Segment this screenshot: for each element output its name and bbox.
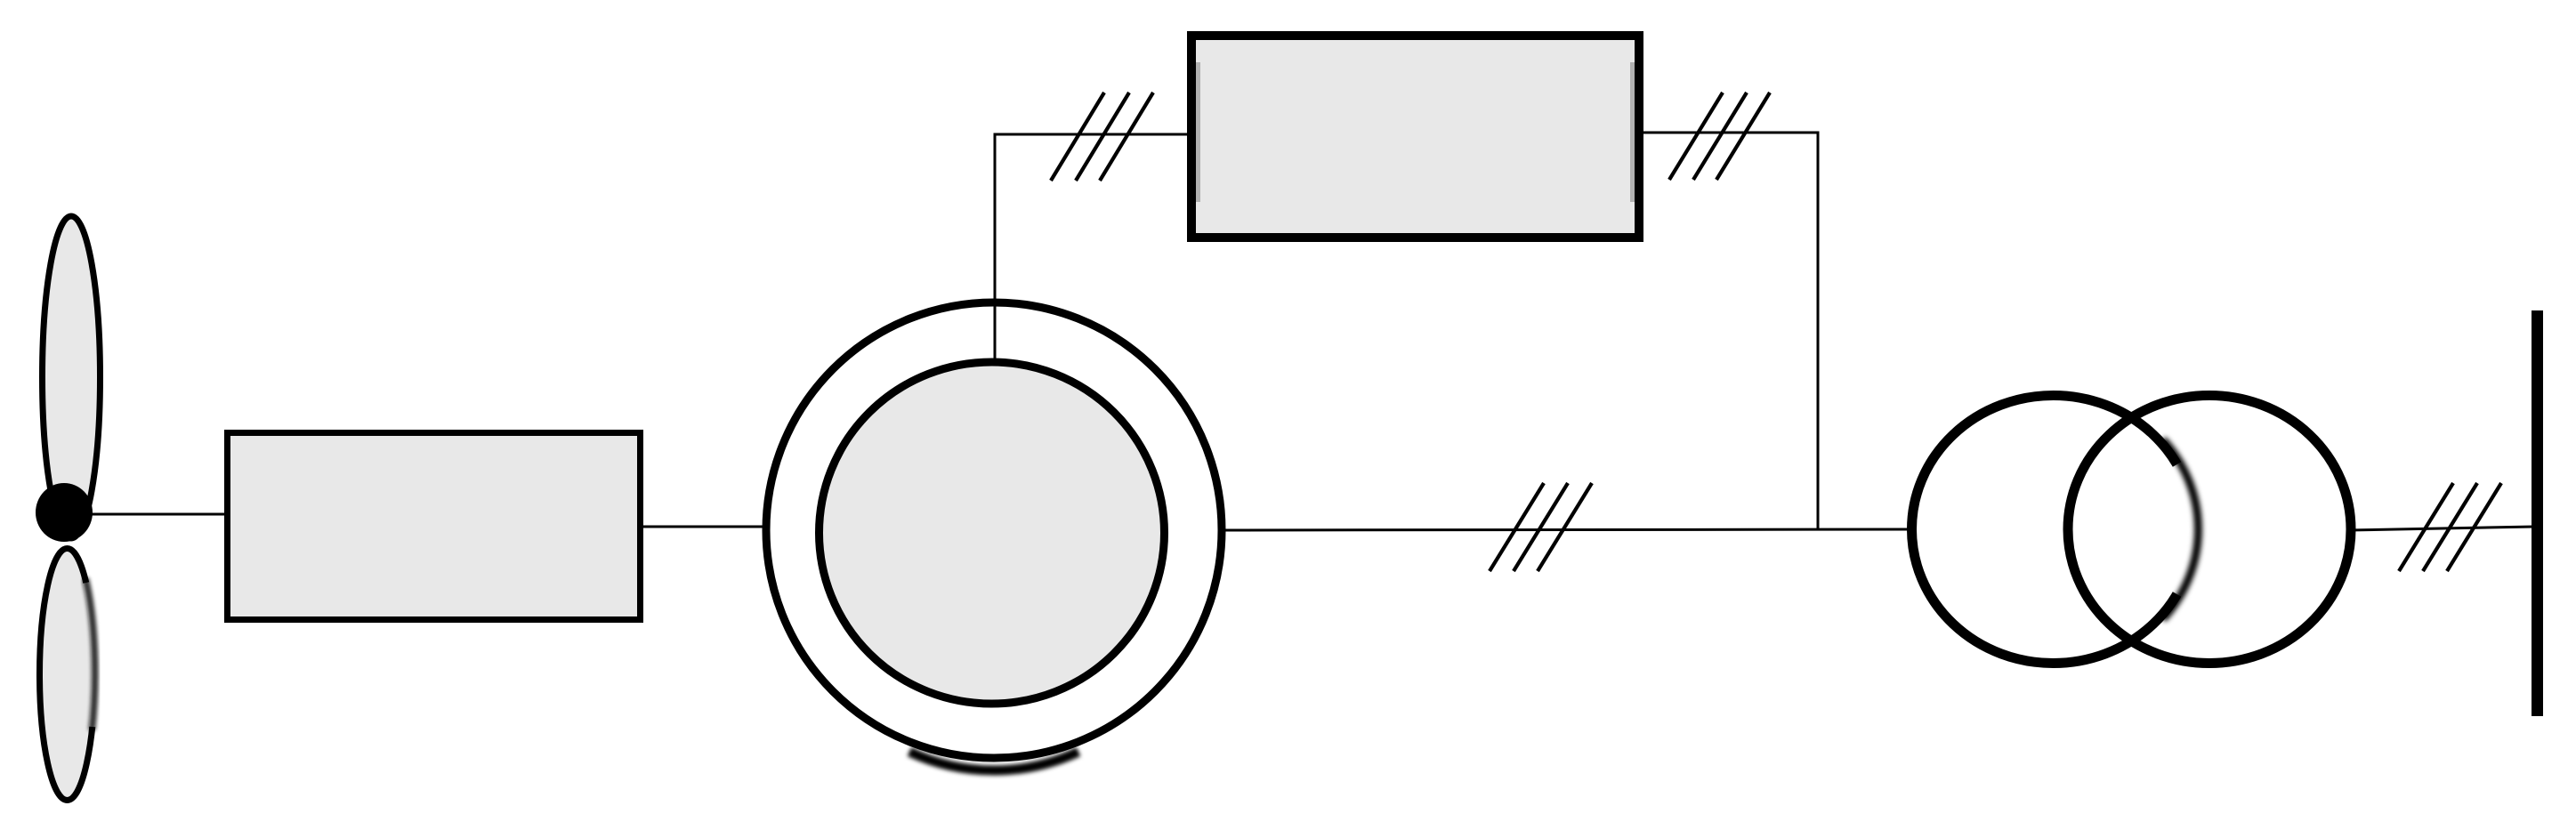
- wire: converter to grid junction: [1637, 133, 1818, 530]
- grid bus bar: [2532, 310, 2543, 716]
- turbine hub: [36, 483, 93, 542]
- transformer winding 1: [1912, 396, 2195, 664]
- transformer winding 2: [2068, 396, 2351, 664]
- wire: generator stator to transformer: [1221, 529, 1913, 530]
- turbine blade (bottom): [40, 549, 95, 801]
- transformer winding 1 arc eraser: [2177, 464, 2195, 594]
- 3-phase marks (stator line): [1490, 483, 1592, 571]
- wire: shaft hub to gearbox: [64, 513, 228, 516]
- transformer overlap blur artifact: [2163, 439, 2199, 619]
- generator outer circle: [766, 302, 1222, 758]
- turbine blade (top): [43, 216, 101, 538]
- converter: [1191, 36, 1639, 238]
- generator bottom blur artifact: [909, 752, 1078, 770]
- generator inner circle (rotor): [820, 362, 1165, 704]
- wire: gearbox to generator: [642, 526, 769, 528]
- wire: rotor tap up to converter: [995, 134, 1192, 361]
- 3-phase marks (converter-grid line): [1669, 93, 1770, 180]
- wire: transformer to grid bus: [2349, 527, 2534, 530]
- 3-phase marks (rotor-converter line): [1051, 93, 1153, 181]
- gearbox GB: [228, 433, 641, 620]
- 3-phase marks (grid line): [2399, 483, 2501, 571]
